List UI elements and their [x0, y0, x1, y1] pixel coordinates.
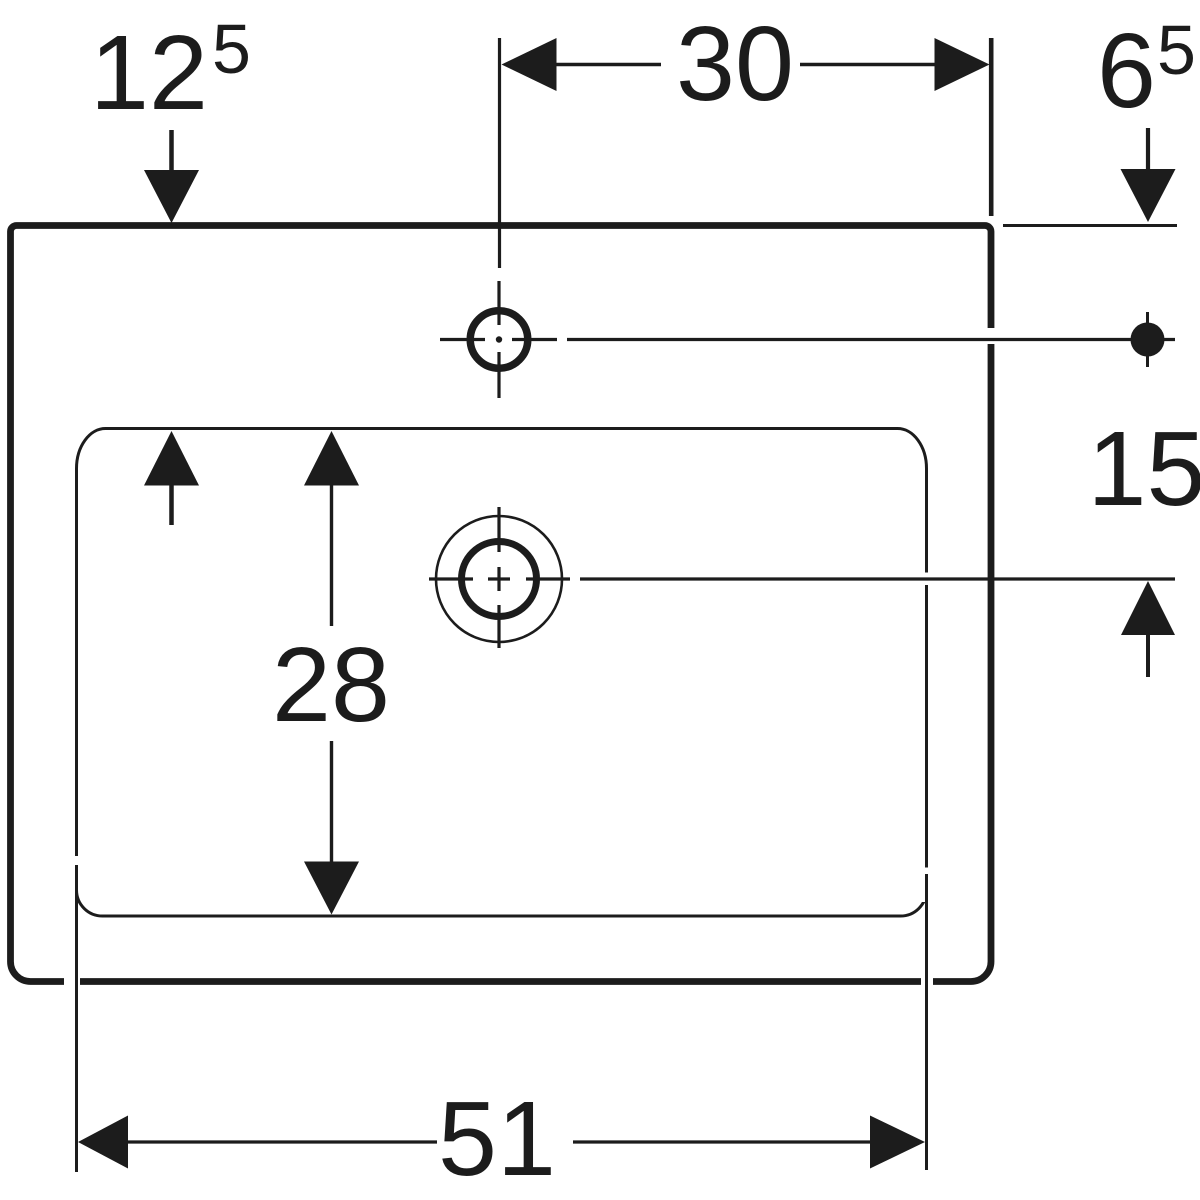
svg-text:5: 5: [212, 10, 251, 88]
svg-text:15: 15: [1088, 410, 1200, 528]
svg-text:30: 30: [676, 5, 794, 123]
svg-text:51: 51: [438, 1080, 556, 1198]
svg-text:28: 28: [272, 626, 390, 744]
svg-text:6: 6: [1097, 12, 1156, 130]
svg-text:12: 12: [90, 14, 208, 132]
svg-text:5: 5: [1157, 11, 1196, 89]
